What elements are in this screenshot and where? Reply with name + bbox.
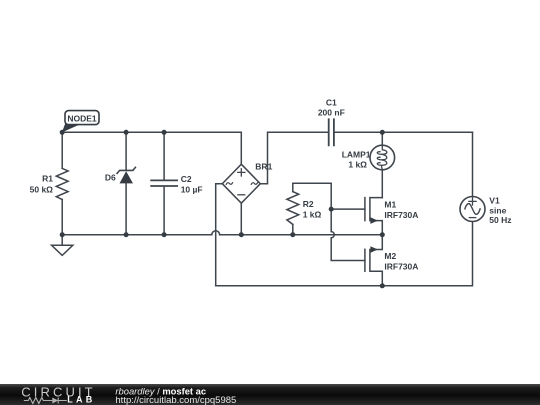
svg-text:10 µF: 10 µF	[181, 185, 203, 195]
svg-text:BR1: BR1	[255, 161, 272, 171]
svg-text:R2: R2	[303, 199, 314, 209]
svg-text:M2: M2	[384, 251, 396, 261]
svg-text:R1: R1	[42, 173, 53, 183]
svg-text:LAB: LAB	[67, 395, 95, 405]
svg-text:200 nF: 200 nF	[318, 107, 345, 117]
svg-text:1 kΩ: 1 kΩ	[348, 160, 367, 170]
svg-text:C2: C2	[181, 174, 192, 184]
svg-text:IRF730A: IRF730A	[384, 261, 418, 271]
svg-text:NODE1: NODE1	[67, 113, 97, 123]
svg-text:LAMP1: LAMP1	[342, 149, 371, 159]
svg-text:M1: M1	[384, 199, 396, 209]
svg-text:1 kΩ: 1 kΩ	[303, 210, 322, 220]
svg-text:http://circuitlab.com/cpq5985: http://circuitlab.com/cpq5985	[115, 395, 236, 405]
svg-text:D6: D6	[105, 172, 116, 182]
svg-text:V1: V1	[489, 196, 500, 206]
svg-text:sine: sine	[489, 205, 506, 215]
svg-text:50 Hz: 50 Hz	[489, 215, 511, 225]
svg-text:IRF730A: IRF730A	[384, 210, 418, 220]
svg-text:C1: C1	[326, 98, 337, 108]
svg-text:50 kΩ: 50 kΩ	[30, 184, 54, 194]
